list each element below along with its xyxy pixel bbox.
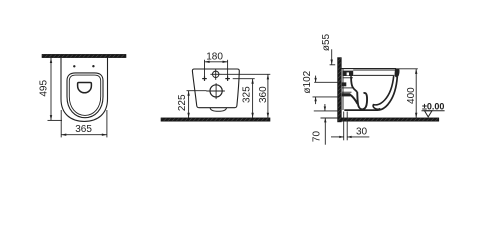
dim o102 arrows — [315, 76, 317, 83]
svg-text:180: 180 — [206, 51, 223, 62]
outer front curve and underside — [344, 77, 397, 110]
dim 180 ext lines — [204, 60, 206, 77]
dim o55 tick — [330, 64, 336, 66]
seat inner — [69, 75, 100, 115]
dim 365 line — [61, 134, 107, 136]
floor (front) — [161, 118, 270, 121]
water area — [78, 83, 92, 93]
dim 225 ext — [187, 90, 207, 92]
wall (plan) — [42, 54, 126, 57]
seat outer — [67, 73, 103, 118]
hinge hole right — [92, 65, 94, 67]
dim 30 ext lines — [343, 112, 345, 141]
dim 325 ext — [233, 78, 255, 80]
dim 70 arrows — [324, 104, 326, 111]
mounting hole left — [202, 78, 207, 80]
trap bulge — [210, 108, 226, 112]
mounting hole right — [225, 78, 230, 80]
outlet pipe upper wall — [342, 82, 347, 86]
dim 70 ext bottom — [321, 117, 338, 119]
outlet taper — [350, 94, 358, 104]
dim 365 ext right — [106, 110, 108, 137]
svg-text:30: 30 — [356, 127, 368, 138]
dim 360 line — [267, 74, 269, 118]
dim o102 ext bottom — [313, 96, 338, 98]
rim underside — [353, 74, 394, 76]
fitting underside — [342, 77, 353, 79]
dim 400 ext — [397, 68, 418, 70]
svg-text:325: 325 — [242, 86, 253, 103]
dim o55 line — [331, 49, 333, 64]
outlet channel top — [342, 87, 354, 89]
dim 400 line — [415, 69, 417, 118]
wall (side) — [338, 58, 342, 122]
rim front wedge — [395, 69, 400, 78]
dim 30 arrows — [331, 136, 344, 138]
dim o102 ext top — [314, 81, 337, 83]
trap U — [357, 92, 367, 110]
svg-text:70: 70 — [312, 131, 323, 143]
rim surface line — [353, 69, 395, 71]
dim 70 ext top — [314, 110, 338, 112]
floor (side) — [341, 118, 439, 121]
svg-text:495: 495 — [39, 80, 50, 97]
dim 495 ext — [48, 119, 63, 121]
dim 365 ext left — [60, 110, 62, 137]
svg-text:ø102: ø102 — [302, 70, 313, 93]
level underline — [422, 110, 445, 112]
bowl outer outline — [61, 58, 108, 122]
flush fitting — [342, 71, 353, 76]
dim 495 line — [50, 58, 52, 120]
inner front curve with hook — [373, 76, 394, 109]
svg-text:365: 365 — [75, 124, 92, 135]
dim 180 line — [205, 61, 228, 63]
inner back wall — [351, 76, 357, 92]
outlet channel bottom — [342, 91, 352, 93]
outlet pipe lower wall — [342, 93, 351, 96]
svg-text:±0.00: ±0.00 — [422, 101, 444, 111]
dim 360 ext — [221, 73, 270, 75]
profile top rim — [341, 68, 397, 70]
body outline (front) — [192, 69, 239, 108]
dim 225 line — [188, 91, 190, 118]
inlet circle — [213, 71, 219, 77]
svg-text:400: 400 — [406, 87, 417, 104]
level triangle — [425, 111, 433, 117]
dim 325 line — [252, 79, 254, 118]
drain circle — [210, 85, 222, 97]
back face — [342, 69, 344, 110]
svg-text:360: 360 — [258, 86, 269, 103]
svg-text:ø55: ø55 — [321, 33, 332, 51]
svg-text:225: 225 — [177, 94, 188, 111]
hinge hole left — [73, 65, 75, 67]
